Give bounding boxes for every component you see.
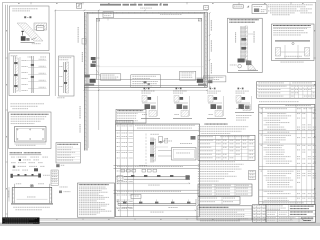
ticks along head member [92,12,93,13]
legend grid [56,164,59,167]
hardware list box [116,109,146,123]
bottom left corner detail [85,75,90,78]
window elevation left jamb [84,12,87,150]
detail box A-A [10,6,50,51]
north arrow mark [247,6,249,8]
section detail B - B [173,88,192,119]
lintel bracket schematic [11,174,13,178]
cut symbol box top [204,6,209,10]
remark box [197,206,252,220]
approval icon box [252,5,267,14]
beispiel header [9,151,22,154]
parts table group separators [259,130,315,132]
caption above parts table [259,100,299,103]
drawing title text [100,4,121,6]
lintel arrangement drawing 1 [121,169,125,172]
caption under mounting note box [280,61,304,64]
dimension line below elevation [84,89,207,91]
notes list box [78,183,115,217]
caption under load spec table [200,160,235,163]
north icon [76,3,81,8]
window elevation sill member [84,85,207,87]
jamb detail box [9,53,50,96]
bottom right corner detail [197,79,203,83]
weight table [198,197,240,204]
lintel arrangement drawing 2 [131,195,141,199]
faint leader line [98,66,204,68]
section detail D - D [235,88,254,113]
window elevation head member [84,11,207,13]
parts table entries [267,112,286,115]
title block left fields [253,205,267,223]
section detail A - A [141,88,160,119]
load table right [257,82,316,99]
caption under section detail D [236,114,252,117]
mounting note box [272,24,315,61]
callout box left jamb [101,74,121,80]
vertical dimension text left of elevation [78,27,79,43]
text above head member [160,13,182,16]
fastener table section header 2 [114,189,200,191]
tall profile detail box [59,56,75,96]
roof connection detail box [228,18,263,72]
head detail box on top edge [103,12,114,18]
note box B3 [203,76,226,82]
stamp box [233,5,243,8]
marks below sill center [144,81,147,83]
parts table right [259,104,315,204]
fastener arrangement table [116,124,200,217]
dimension line above elevation [55,9,207,11]
vertical dimension line right of elevation [209,13,211,87]
fuge note box [56,143,81,164]
section cut line B [98,10,100,130]
title block main [266,205,316,223]
section detail C - C [207,88,226,119]
note box B1 [131,75,161,88]
fastener table section header 1 [114,165,200,167]
fastener table left column entries [116,132,119,135]
symbol legend rows [11,156,15,159]
numbered notes list [198,163,244,166]
hinge detail mid left jamb [91,57,96,60]
caption under tall profile detail [57,96,65,99]
window elevation right jamb [205,12,208,87]
anschluss details text block [205,123,228,126]
elevation corner details [96,18,99,21]
revision notes [268,3,313,6]
fastening arrangement drawing jamb [145,134,147,165]
frame anchor schematic [13,186,53,188]
fastening schematic box [9,112,51,149]
fastener table header tab [116,120,134,124]
grid reference marks [18,3,20,4]
frame tick marks [30,2,32,4]
section line S1 [54,10,56,96]
note box B2 [180,71,196,80]
black approval stamp [2,217,39,223]
caption under frame anchor schematic [13,206,50,209]
parts table bottom caption [262,201,304,204]
stacked boxes beside notes [249,171,256,180]
element table [198,184,252,196]
caption under remark box [200,219,240,222]
caption under jamb details [10,102,44,105]
load spec table [198,135,255,160]
